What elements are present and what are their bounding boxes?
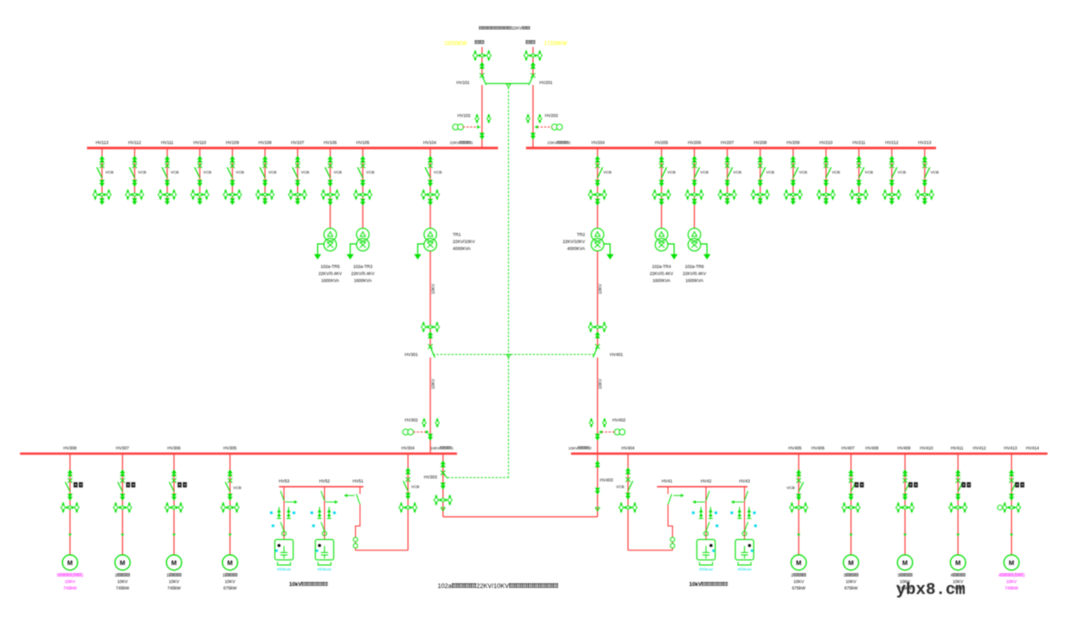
cyan marks arresters HV52 xyxy=(311,512,314,515)
tick on motor feeder HV413 xyxy=(1010,534,1013,537)
wire HV301 breaker to 10KV bus xyxy=(429,358,431,454)
svg-text:VCB: VCB xyxy=(603,170,612,175)
svg-text:VCB: VCB xyxy=(865,170,874,175)
motor HV405 labels xyxy=(791,573,806,578)
arrow up feeder HV109 xyxy=(230,156,235,163)
switch HV43 lower xyxy=(745,522,749,531)
motor HV405 xyxy=(791,555,806,570)
PT HV402 voltage transformer xyxy=(614,429,625,435)
operating arrow HV41 (points right) xyxy=(674,495,683,497)
arrow down motor feeder HV308 xyxy=(67,494,72,501)
breaker VCB feeder HV208 xyxy=(758,164,763,169)
svg-text:HV111: HV111 xyxy=(161,140,174,145)
wire HV204 bus to transformer TR2 xyxy=(597,148,599,229)
operating arrow HV42 xyxy=(694,501,705,503)
svg-text:675kW: 675kW xyxy=(792,586,806,591)
arrow up feeder HV304 xyxy=(405,468,410,475)
svg-text:22KV: 22KV xyxy=(450,140,460,145)
arrow up motor feeder HV405 xyxy=(796,470,801,477)
switch HV51 xyxy=(356,494,360,505)
wire feeder HV112 xyxy=(134,148,136,199)
arrow down feeder HV207 xyxy=(725,180,730,187)
long vertical tie wire (green dashed) xyxy=(508,88,510,478)
svg-text:M: M xyxy=(848,560,853,567)
disconnect cluster feeder HV213 xyxy=(916,189,934,200)
switch HV52 lower xyxy=(321,522,325,531)
breaker HV101 xyxy=(480,73,485,78)
feeder HV111 end arrow xyxy=(166,199,168,202)
svg-text:10KV: 10KV xyxy=(568,445,578,450)
wire motor feeder HV409 xyxy=(904,454,906,555)
svg-text:HV105: HV105 xyxy=(356,140,370,145)
breaker VCB feeder HV105 xyxy=(361,164,366,169)
wire motor feeder HV411 xyxy=(957,454,959,555)
svg-text:745kW: 745kW xyxy=(63,586,77,591)
svg-text:M: M xyxy=(67,560,72,567)
feeder HV112 end arrow xyxy=(134,199,136,202)
svg-text:22KV: 22KV xyxy=(512,26,522,31)
svg-text:HV101: HV101 xyxy=(456,80,470,85)
transformer TR2 xyxy=(591,228,604,251)
breaker VCB feeder HV209 xyxy=(791,164,796,169)
svg-text:VCB: VCB xyxy=(733,170,742,175)
svg-text:HV51: HV51 xyxy=(353,479,364,484)
breaker VCB feeder HV112 xyxy=(132,164,137,169)
svg-text:10KV: 10KV xyxy=(65,579,76,584)
svg-text:TR1: TR1 xyxy=(453,232,462,237)
svg-text:HV405: HV405 xyxy=(788,445,802,450)
svg-text:22KV/10KV: 22KV/10KV xyxy=(453,239,475,244)
feeder HV213 end arrow xyxy=(924,199,926,202)
svg-text:1: 1 xyxy=(451,445,453,450)
svg-text:HV305: HV305 xyxy=(223,445,237,450)
wire motor feeder HV306 xyxy=(173,454,175,555)
svg-text:1: 1 xyxy=(471,140,473,145)
arrow up motor feeder HV305 xyxy=(227,470,232,477)
arrow up feeder HV207 xyxy=(725,156,730,163)
capacitor sub-bus right xyxy=(657,486,748,488)
wire motor feeder HV308 xyxy=(69,454,71,555)
disconnect cluster feeder HV210 xyxy=(817,189,835,200)
svg-text:HV410: HV410 xyxy=(920,445,934,450)
tick on motor feeder HV409 xyxy=(903,534,906,537)
arrow down feeder HV209 xyxy=(790,180,795,187)
arrow down feeder HV109 xyxy=(230,180,235,187)
disconnect cluster feeder HV208 xyxy=(751,189,769,200)
svg-text:22KV/0.4KV: 22KV/0.4KV xyxy=(650,271,674,276)
reactor coil HV53 xyxy=(282,531,286,535)
svg-text:4000KVA: 4000KVA xyxy=(453,246,471,251)
arrow down motor feeder HV409 xyxy=(902,494,907,501)
wire HV41 to HV404 bottom tie xyxy=(628,549,673,551)
wire feeder HV404 xyxy=(627,454,629,551)
breaker VCB feeder HV213 xyxy=(922,164,927,169)
motor HV407 labels xyxy=(843,573,858,578)
disconnect cluster feeder HV207 xyxy=(718,189,736,200)
wire capacitor feeder HV52 xyxy=(324,487,326,540)
disconnect cluster feeder HV209 xyxy=(784,189,802,200)
svg-text:VCB: VCB xyxy=(799,170,808,175)
disconnect cluster feeder HV206 xyxy=(685,189,703,200)
svg-text:17200KW: 17200KW xyxy=(544,41,567,47)
breaker motor feeder HV411 xyxy=(956,478,961,483)
arrow up motor feeder HV407 xyxy=(848,470,853,477)
svg-text:22KV/0.4KV: 22KV/0.4KV xyxy=(351,271,375,276)
svg-text:HV106: HV106 xyxy=(324,140,338,145)
arrow up feeder HV204 xyxy=(595,156,600,163)
arrow down feeder HV110 xyxy=(197,180,202,187)
svg-text:HV303: HV303 xyxy=(424,475,438,480)
breaker motor feeder HV305 xyxy=(228,478,233,483)
arrow down feeder HV204 xyxy=(595,180,600,187)
feeder HV207 end arrow xyxy=(726,199,728,202)
wire feeder HV206 xyxy=(693,148,695,199)
svg-text:HV205: HV205 xyxy=(655,140,669,145)
motor HV411 xyxy=(950,555,965,570)
earth switch dots HV51 xyxy=(353,537,357,541)
svg-text:102a: 102a xyxy=(438,583,453,590)
disconnect cluster TR1 secondary xyxy=(421,322,439,333)
wire feeder HV105 xyxy=(362,148,364,199)
svg-text:675kW: 675kW xyxy=(844,586,858,591)
svg-text:10KV: 10KV xyxy=(169,579,180,584)
surge arrester pair HV53 xyxy=(277,507,281,519)
breaker VCB feeder HV111 xyxy=(165,164,170,169)
wire feeder HV212 xyxy=(891,148,893,199)
tie wire between incomer breakers (green) xyxy=(486,83,528,85)
arrow down incomer HV201 xyxy=(530,133,535,140)
svg-text:HV113: HV113 xyxy=(96,140,109,145)
feeder HV208 end arrow xyxy=(759,199,761,202)
svg-text:VCB: VCB xyxy=(434,170,443,175)
junction triangle on middle tie xyxy=(506,354,510,357)
wire transformer TR1 secondary xyxy=(429,251,431,346)
arrow down incomer HV101 xyxy=(479,133,484,140)
svg-text:745kW: 745kW xyxy=(1005,586,1019,591)
svg-text:TR2: TR2 xyxy=(577,232,586,237)
breaker VCB feeder HV113 xyxy=(100,164,105,169)
arrow down feeder HV211 xyxy=(856,180,861,187)
svg-text:HV210: HV210 xyxy=(819,140,833,145)
wire feeder HV113 xyxy=(101,148,103,199)
junction triangle on top tie xyxy=(506,84,510,87)
breaker motor feeder HV307 xyxy=(120,478,125,483)
arrow up above tie breaker HV401 xyxy=(595,332,600,339)
svg-text:HV204: HV204 xyxy=(592,140,606,145)
svg-text:HV301: HV301 xyxy=(405,352,419,357)
svg-text:10KV: 10KV xyxy=(117,579,128,584)
arrow down motor feeder HV307 xyxy=(120,494,125,501)
svg-text:HV413: HV413 xyxy=(1004,445,1018,450)
breaker VCB feeder HV204 xyxy=(595,164,600,169)
capacitor unit HV53 bracket xyxy=(278,562,291,565)
breaker HV201 xyxy=(531,73,536,78)
breaker VCB feeder HV404 xyxy=(626,477,631,482)
disconnect pair HV302 xyxy=(422,418,426,428)
svg-text:M: M xyxy=(227,560,232,567)
motor HV308 xyxy=(62,555,77,570)
svg-text:HV406: HV406 xyxy=(811,445,825,450)
motor HV306 labels xyxy=(166,573,181,578)
disconnect pair HV202 xyxy=(526,114,530,124)
disconnect cluster feeder HV108 xyxy=(256,189,274,200)
cyan marks arresters HV53 xyxy=(270,512,273,515)
svg-text:102a-TR6: 102a-TR6 xyxy=(685,264,705,269)
breaker motor feeder HV407 xyxy=(849,478,854,483)
svg-text:450kvar: 450kvar xyxy=(277,567,292,572)
disconnect cluster feeder HV304 xyxy=(399,502,417,513)
svg-text:VCB: VCB xyxy=(667,170,676,175)
reactor coil HV42 xyxy=(704,531,708,535)
tick on motor feeder HV307 xyxy=(121,534,124,537)
svg-text:450kvar: 450kvar xyxy=(317,567,332,572)
tick on motor feeder HV405 xyxy=(797,534,800,537)
svg-text:VCB: VCB xyxy=(898,170,907,175)
motor HV413 labels xyxy=(998,573,1025,578)
breaker HV303 xyxy=(441,471,446,476)
surge arrester pair HV42 xyxy=(699,507,703,519)
bus 10KV母线段2 xyxy=(571,453,1048,455)
svg-text:M: M xyxy=(1009,560,1014,567)
arrow up feeder HV212 xyxy=(889,156,894,163)
switch fuse HV53 upper xyxy=(281,491,285,501)
breaker VCB feeder HV211 xyxy=(857,164,862,169)
operating arrow HV53 xyxy=(285,501,296,503)
capacitor unit HV53 xyxy=(275,540,293,560)
transformer TR1 xyxy=(424,228,437,251)
arrow up feeder HV107 xyxy=(295,156,300,163)
bus 22KV母线段2 xyxy=(526,147,936,149)
svg-text:HV407: HV407 xyxy=(841,445,855,450)
breaker VCB feeder HV210 xyxy=(824,164,829,169)
arrow up motor feeder HV306 xyxy=(171,470,176,477)
svg-text:ybx8.cm: ybx8.cm xyxy=(896,580,965,599)
svg-text:HV308: HV308 xyxy=(63,445,77,450)
wire HV51 to HV304 bottom tie xyxy=(356,549,409,551)
reactor coil HV52 xyxy=(322,531,326,535)
svg-text:HV212: HV212 xyxy=(885,140,899,145)
svg-text:HV109: HV109 xyxy=(226,140,240,145)
svg-text:HV102: HV102 xyxy=(457,113,471,118)
svg-text:HV110: HV110 xyxy=(193,140,206,145)
svg-text:M: M xyxy=(120,560,125,567)
breaker motor feeder HV308 xyxy=(68,478,73,483)
breaker VCB feeder HV110 xyxy=(198,164,203,169)
arrow down feeder HV104 xyxy=(428,180,433,187)
svg-text:HV302: HV302 xyxy=(405,418,419,423)
earth switch dots HV41 xyxy=(670,537,674,541)
svg-text:HV201: HV201 xyxy=(539,80,553,85)
arrow down motor feeder HV305 xyxy=(227,494,232,501)
arrow up HV403 xyxy=(595,461,600,468)
wire HV401 breaker to 10KV bus xyxy=(597,358,599,454)
disconnect cluster feeder HV111 xyxy=(158,189,176,200)
svg-text:450kvar: 450kvar xyxy=(737,567,752,572)
svg-text:1600KVA: 1600KVA xyxy=(321,278,339,283)
feeder HV210 end arrow xyxy=(825,199,827,202)
arrow down feeder HV304 xyxy=(405,493,410,500)
capacitor unit HV43 xyxy=(735,540,753,560)
svg-text:HV108: HV108 xyxy=(258,140,272,145)
svg-text:1600KVA: 1600KVA xyxy=(685,278,703,283)
arrow up feeder HV211 xyxy=(856,156,861,163)
capacitor unit HV42 bracket xyxy=(700,562,713,565)
arrow up feeder HV209 xyxy=(790,156,795,163)
disconnect cluster motor feeder HV407 xyxy=(842,502,860,513)
disconnect cluster feeder HV204 xyxy=(588,189,606,200)
breaker VCB feeder HV207 xyxy=(725,164,730,169)
feeder HV109 end arrow xyxy=(231,199,233,202)
svg-text:VCB: VCB xyxy=(931,170,940,175)
disconnect pair HV402 xyxy=(589,418,593,428)
svg-text:745kW: 745kW xyxy=(167,586,181,591)
wire incomer HV201 upper xyxy=(532,47,534,76)
arrow up feeder HV108 xyxy=(262,156,267,163)
wire HV104 bus to transformer TR1 xyxy=(429,148,431,229)
disconnect cluster motor feeder HV306 xyxy=(165,502,183,513)
capacitor unit HV42 xyxy=(697,540,715,560)
svg-text:1600KVA: 1600KVA xyxy=(354,278,372,283)
arrow down feeder HV206 xyxy=(692,180,697,187)
svg-text:HV213: HV213 xyxy=(918,140,932,145)
arrow down motor feeder HV306 xyxy=(171,494,176,501)
arrow down HV302 above 10KV bus xyxy=(428,434,433,441)
tick on motor feeder HV306 xyxy=(172,534,175,537)
breaker motor feeder HV306 xyxy=(172,478,177,483)
breaker VCB feeder HV104 xyxy=(428,164,433,169)
svg-text:1600KVA: 1600KVA xyxy=(653,278,671,283)
transformer 102a-TR5 xyxy=(324,228,337,251)
wire feeder HV106 xyxy=(329,148,331,199)
arrow down feeder HV210 xyxy=(823,180,828,187)
wire feeder HV208 xyxy=(759,148,761,199)
svg-text:HV401: HV401 xyxy=(610,352,624,357)
svg-text:HV402: HV402 xyxy=(612,418,626,423)
disconnect cluster incomer HV101 xyxy=(473,50,491,61)
svg-text:HV411: HV411 xyxy=(951,445,964,450)
arrow down feeder HV404 xyxy=(625,493,630,500)
wire green dashed HV303 to center tie xyxy=(448,477,509,479)
arrow down feeder HV111 xyxy=(165,180,170,187)
wire motor feeder HV305 xyxy=(229,454,231,555)
disconnect cluster feeder HV113 xyxy=(93,189,111,200)
svg-text:10KV: 10KV xyxy=(1006,579,1017,584)
arrow up feeder HV210 xyxy=(823,156,828,163)
svg-text:VCB: VCB xyxy=(787,485,796,490)
svg-text:HV404: HV404 xyxy=(621,445,635,450)
svg-text:22KV/0.4KV: 22KV/0.4KV xyxy=(318,271,342,276)
arrow up feeder HV213 xyxy=(922,156,927,163)
svg-text:VCB: VCB xyxy=(233,485,242,490)
svg-text:450kvar: 450kvar xyxy=(699,567,714,572)
disconnect cluster motor feeder HV308 xyxy=(61,502,79,513)
arrow up feeder HV113 xyxy=(99,156,104,163)
arrow up feeder HV110 xyxy=(197,156,202,163)
wire HV41 down jog xyxy=(668,505,673,551)
wire feeder HV110 xyxy=(199,148,201,199)
svg-text:VCB: VCB xyxy=(236,170,245,175)
svg-text:10kV: 10kV xyxy=(689,582,702,588)
arrow up motor feeder HV411 xyxy=(955,470,960,477)
cyan marks arresters HV42 xyxy=(692,512,695,515)
svg-text:22KV/0.4KV: 22KV/0.4KV xyxy=(683,271,707,276)
svg-text:10KV: 10KV xyxy=(431,284,436,294)
svg-text:VCB: VCB xyxy=(268,170,277,175)
operating arrow HV52 xyxy=(326,501,337,503)
arrow up motor feeder HV409 xyxy=(902,470,907,477)
disconnect cluster motor feeder HV413 xyxy=(1002,502,1020,513)
capacitor unit HV52 xyxy=(315,540,333,560)
wire feeder HV209 xyxy=(792,148,794,199)
HV403 end triangle xyxy=(595,508,599,511)
feeder HV212 end arrow xyxy=(891,199,893,202)
breaker motor feeder HV409 xyxy=(903,478,908,483)
bus tie wire HV301-HV401 (green dashed) xyxy=(433,353,595,355)
breaker VCB feeder HV107 xyxy=(295,164,300,169)
disconnect cluster motor feeder HV307 xyxy=(113,502,131,513)
feeder HV107 end arrow xyxy=(297,199,299,202)
svg-text:VCB: VCB xyxy=(411,484,420,489)
PT HV202 voltage transformer xyxy=(552,124,563,130)
arrow down HV303 xyxy=(440,483,445,490)
caption 10kV电容器装置 left xyxy=(289,582,327,588)
disconnect cluster motor feeder HV409 xyxy=(896,502,914,513)
breaker VCB feeder HV108 xyxy=(263,164,268,169)
feeder HV108 end arrow xyxy=(264,199,266,202)
switch HV42 lower xyxy=(706,522,710,531)
wire capacitor feeder HV53 xyxy=(283,487,285,540)
svg-text:VCB: VCB xyxy=(334,170,343,175)
wire incomer HV201 lower xyxy=(532,85,534,148)
switch HV53 lower xyxy=(281,522,285,531)
transformer 102a-TR3 xyxy=(357,228,370,251)
wire capacitor feeder HV43 xyxy=(744,487,746,540)
svg-text:VCB: VCB xyxy=(700,170,709,175)
svg-text:HV408: HV408 xyxy=(865,445,879,450)
wire HV51 down jog xyxy=(356,505,361,551)
svg-text:VCB: VCB xyxy=(832,170,841,175)
svg-text:HV104: HV104 xyxy=(423,140,437,145)
arrow down motor feeder HV413 xyxy=(1009,494,1014,501)
wire HV403 column xyxy=(597,454,599,511)
arrow up feeder HV111 xyxy=(165,156,170,163)
svg-text:2: 2 xyxy=(589,445,591,450)
svg-text:745kW: 745kW xyxy=(116,586,130,591)
breaker VCB feeder HV304 xyxy=(406,477,411,482)
svg-text:HV306: HV306 xyxy=(167,445,181,450)
arrow down motor feeder HV407 xyxy=(848,494,853,501)
arrow up feeder HV205 xyxy=(659,156,664,163)
arrow down feeder HV113 xyxy=(99,180,104,187)
arrow up feeder HV206 xyxy=(692,156,697,163)
tie breaker HV401 xyxy=(595,344,600,349)
wire feeder HV304 xyxy=(407,454,409,551)
motor HV306 xyxy=(166,555,181,570)
disconnect cluster HV303 xyxy=(434,495,452,506)
arrow up incomer HV101 xyxy=(479,62,484,69)
svg-text:HV42: HV42 xyxy=(701,479,712,484)
wire capacitor feeder HV42 xyxy=(705,487,707,540)
motor HV305 xyxy=(222,555,237,570)
feeder HV110 end arrow xyxy=(199,199,201,202)
wire HV303 column xyxy=(442,454,444,511)
wire feeder HV107 xyxy=(297,148,299,199)
arrow down feeder HV107 xyxy=(295,180,300,187)
wire feeder HV213 xyxy=(924,148,926,199)
disconnect cluster feeder HV205 xyxy=(652,189,670,200)
title text 22KV incoming source note xyxy=(479,26,530,31)
svg-text:VCB: VCB xyxy=(203,170,212,175)
